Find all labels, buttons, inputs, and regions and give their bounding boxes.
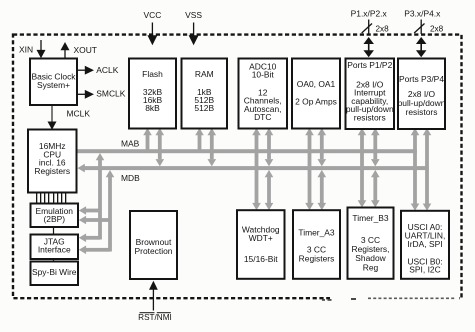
wire MAB down-feed to emulation/JTAG	[96, 153, 105, 240]
RAM MAB connector	[195, 128, 204, 151]
svg-text:MAB: MAB	[121, 138, 140, 148]
svg-text:resistors: resistors	[406, 107, 438, 117]
JTAG interface block	[31, 235, 79, 260]
svg-text:XOUT: XOUT	[74, 45, 97, 55]
wire JTAG to Spy-Bi-Wire	[53, 259, 54, 262]
svg-text:8kB: 8kB	[145, 103, 160, 113]
ADC10 block	[239, 59, 288, 129]
svg-text:15/16-Bit: 15/16-Bit	[244, 254, 278, 264]
brownout protection block	[130, 211, 177, 279]
ADC10/watchdog MDB connector	[265, 128, 274, 210]
ports P3P4/USCI MAB/through connector	[411, 128, 420, 211]
arrow into emulation from MAB feed	[79, 206, 100, 215]
op-amp block	[292, 59, 340, 129]
port P1/P2 pin wire with 2x8 bus slash	[362, 20, 389, 35]
wire MDB down-feed to emulation/JTAG	[106, 170, 115, 252]
port P3/P4 pin wire with 2x8 bus slash	[414, 20, 443, 35]
svg-text:Spy-Bi Wire: Spy-Bi Wire	[32, 267, 77, 277]
svg-text:MDB: MDB	[121, 173, 140, 183]
svg-text:RST/NMI: RST/NMI	[138, 313, 172, 322]
USCI block	[401, 211, 449, 279]
svg-text:RAM: RAM	[195, 69, 214, 79]
svg-text:XIN: XIN	[19, 45, 33, 55]
ports P3P4/USCI MDB connector	[423, 128, 432, 211]
arrow into emulation from MDB feed	[79, 216, 110, 225]
svg-text:IrDA, SPI: IrDA, SPI	[407, 239, 442, 249]
Spy-Bi-Wire block	[31, 262, 79, 286]
svg-text:resistors: resistors	[354, 113, 386, 123]
ADC10/watchdog MAB/through connector	[252, 128, 261, 210]
signal SMCLK arrow	[77, 90, 94, 99]
port P3/P4 double arrow	[416, 37, 427, 57]
svg-text:VCC: VCC	[143, 10, 161, 20]
ports P3/P4 block	[398, 59, 446, 130]
svg-text:MCLK: MCLK	[67, 109, 91, 119]
svg-text:Protection: Protection	[135, 246, 173, 256]
svg-text:VSS: VSS	[185, 10, 202, 20]
port P1/P2 double arrow	[363, 37, 374, 57]
svg-text:10-Bit: 10-Bit	[252, 69, 275, 79]
arrow into JTAG from MAB feed	[79, 234, 100, 243]
svg-text:System+: System+	[37, 80, 70, 90]
svg-text:Registers: Registers	[34, 166, 70, 176]
arrow into JTAG from MDB feed	[79, 246, 110, 255]
RAM MDB connector	[208, 128, 217, 166]
flash MAB connector	[143, 128, 152, 151]
wire emulation to JTAG	[53, 227, 54, 235]
svg-text:OA0, OA1: OA0, OA1	[297, 79, 336, 89]
svg-text:(2BP): (2BP)	[43, 214, 65, 224]
OA/Timer_A3 MDB connector	[318, 128, 327, 210]
OA/Timer_A3 MAB/through connector	[305, 128, 314, 210]
svg-text:WDT+: WDT+	[249, 233, 273, 243]
pin RST/NMI label with overbars	[138, 312, 172, 322]
pin XOUT arrow	[61, 42, 70, 59]
MDB bus with arrow into CPU	[78, 164, 429, 173]
svg-text:Ports P1/P2: Ports P1/P2	[347, 60, 392, 70]
svg-text:DTC: DTC	[254, 112, 271, 122]
CPU block	[28, 130, 77, 193]
svg-text:Interface: Interface	[38, 245, 71, 255]
pin VCC arrow	[147, 23, 157, 46]
ports P1/P2 block	[346, 59, 395, 130]
RAM block	[182, 59, 228, 129]
svg-text:Reg: Reg	[363, 262, 379, 272]
flash MDB connector	[156, 128, 165, 166]
pin VSS arrow	[189, 23, 199, 46]
basic clock system block	[30, 59, 77, 106]
CPU to emulation hatch lines	[36, 194, 66, 204]
watchdog block	[237, 210, 285, 279]
svg-text:Timer_A3: Timer_A3	[298, 228, 335, 238]
svg-text:Ports P3/P4: Ports P3/P4	[399, 74, 444, 84]
svg-text:2 Op Amps: 2 Op Amps	[295, 97, 337, 107]
svg-text:P3.x/P4.x: P3.x/P4.x	[404, 9, 441, 19]
flash memory block	[129, 59, 176, 129]
svg-text:2x8: 2x8	[430, 25, 444, 34]
svg-text:Registers: Registers	[299, 254, 335, 264]
device boundary dashed box	[13, 35, 462, 299]
svg-text:P1.x/P2.x: P1.x/P2.x	[351, 9, 388, 19]
pin RST/NMI arrow into brownout	[149, 281, 158, 311]
emulation block	[31, 204, 79, 228]
signal ACLK arrow	[77, 66, 94, 75]
MAB bus	[78, 149, 417, 153]
svg-text:SPI, I2C: SPI, I2C	[409, 265, 440, 275]
signal MCLK arrow	[48, 105, 57, 130]
bottom border faded segment	[322, 295, 459, 301]
svg-text:SMCLK: SMCLK	[96, 88, 125, 98]
Timer_B3 block	[348, 208, 394, 279]
svg-text:ACLK: ACLK	[96, 65, 118, 75]
svg-text:Timer_B3: Timer_B3	[352, 213, 389, 223]
svg-text:512B: 512B	[194, 103, 214, 113]
ports P1P2/Timer_B3 MAB/through connector	[358, 128, 367, 208]
svg-text:Flash: Flash	[142, 69, 163, 79]
Timer_A3 block	[293, 210, 340, 279]
svg-text:2x8: 2x8	[376, 25, 390, 34]
ports P1P2/Timer_B3 MDB connector	[371, 128, 380, 208]
pin XIN arrow	[37, 40, 46, 58]
